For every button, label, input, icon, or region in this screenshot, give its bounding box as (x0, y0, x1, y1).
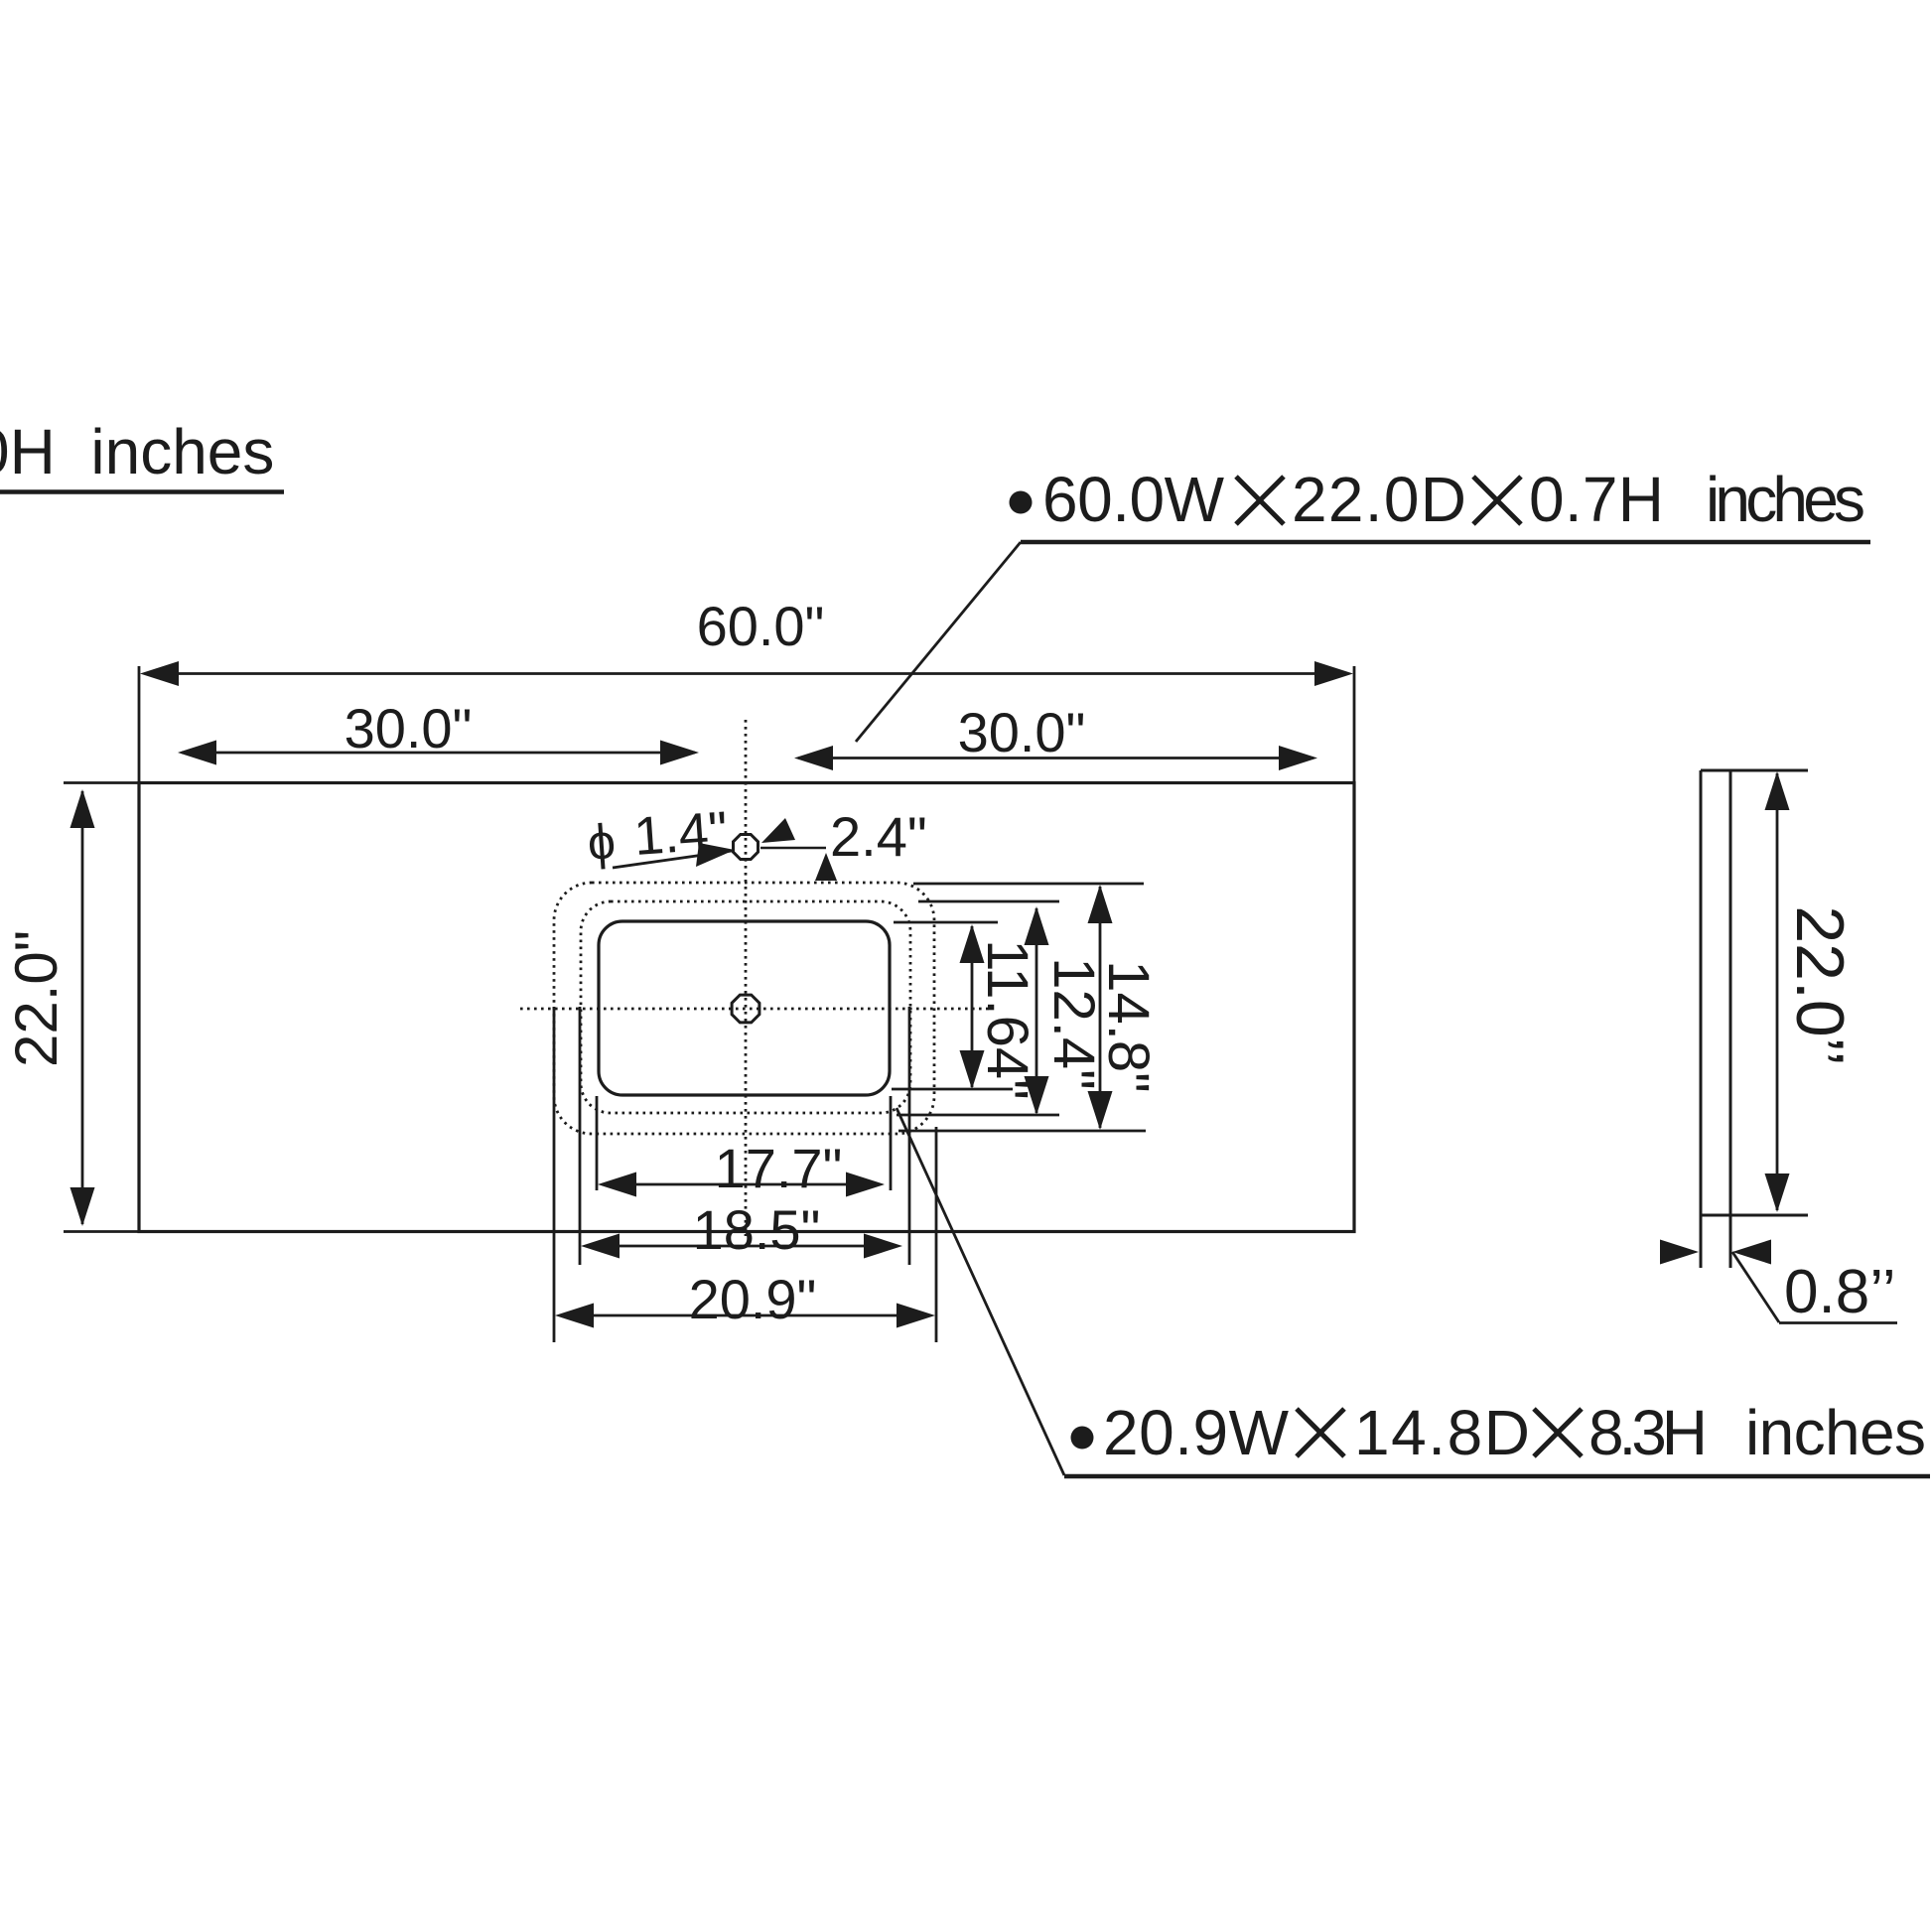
label 18.5" (693, 1198, 821, 1261)
14.8 top extension (913, 883, 1144, 886)
svg-text:22.0D: 22.0D (1292, 464, 1466, 535)
thickness arrow left (1660, 1240, 1699, 1265)
label 22.0" left (rotated) (3, 930, 69, 1067)
svg-text:inches: inches (1706, 464, 1865, 535)
phi arrowhead right of hole (761, 818, 795, 843)
label 60.0" (697, 595, 825, 657)
svg-text:20.9": 20.9" (689, 1268, 817, 1330)
17.7 right extension (890, 1096, 893, 1190)
label 14.8" (rotated) (1096, 960, 1161, 1092)
dim 18.5 line (586, 1245, 897, 1248)
dimension line 22.0 left (81, 791, 84, 1224)
multiplication cross 3 (1297, 1409, 1344, 1456)
dim 17.7 line (603, 1183, 880, 1186)
svg-text:inches: inches (1745, 1397, 1926, 1468)
phi arrowhead left of hole (696, 843, 735, 867)
drain hole octagon (732, 995, 759, 1023)
svg-text:30.0": 30.0" (958, 701, 1086, 763)
faucet hole octagon (734, 835, 759, 860)
cropped header text "0H inches" top-left (0, 416, 274, 487)
vertical dotted centerline of sink (745, 720, 748, 1236)
label 30.0" right (958, 701, 1086, 763)
18.5 right extension (908, 1007, 911, 1265)
top edge extension to left (64, 781, 139, 784)
svg-text:17.7": 17.7" (715, 1137, 843, 1199)
bullet of countertop note (1010, 491, 1033, 514)
2.4 up arrow (815, 853, 837, 881)
bottom edge extension to left (64, 1230, 139, 1233)
horizontal dotted centerline of sink (520, 1008, 993, 1011)
svg-text:2.4": 2.4" (830, 805, 927, 868)
svg-text:30.0": 30.0" (345, 697, 473, 759)
sink note leader diagonal (897, 1108, 1064, 1475)
svg-text:60.0": 60.0" (697, 595, 825, 657)
extension tick left of 60.0 (138, 666, 141, 782)
multiplication cross 2 (1473, 477, 1521, 524)
dim 14.8 vertical line (1099, 887, 1102, 1128)
middle dotted cutout rounded rect (581, 901, 910, 1113)
dim 20.9 line (560, 1314, 930, 1317)
svg-text:0.7H: 0.7H (1529, 464, 1664, 535)
20.9 right extension (935, 1127, 938, 1342)
basin solid rounded rect (599, 921, 890, 1095)
svg-text:22.0": 22.0" (3, 930, 69, 1067)
18.5 left extension (579, 1007, 582, 1265)
label 17.7" (715, 1137, 843, 1199)
14.8 bottom extension (898, 1130, 1146, 1133)
side view top edge (1701, 769, 1808, 772)
label 12.4" (rotated) (1041, 957, 1106, 1089)
header underline (0, 489, 284, 494)
label 2.4" (830, 805, 927, 868)
dimension line 60.0 (145, 672, 1348, 675)
svg-text:22.0’’: 22.0’’ (1782, 905, 1858, 1065)
countertop outline (plan view) (139, 783, 1354, 1232)
20.9 left extension (553, 1007, 556, 1342)
dimension line 22.0 side (1776, 773, 1779, 1210)
side view slab right edge (1729, 770, 1732, 1268)
label 22.0'' side (rotated) (1782, 905, 1858, 1065)
countertop note underline (1021, 540, 1870, 545)
svg-text:12.4": 12.4" (1041, 957, 1106, 1089)
side view bottom edge (1701, 1214, 1808, 1217)
11.64 bottom extension (892, 1088, 1013, 1091)
bullet of sink note (1071, 1427, 1094, 1449)
svg-text:18.5": 18.5" (693, 1198, 821, 1261)
multiplication cross 1 (1236, 477, 1284, 524)
svg-text:0.8’’: 0.8’’ (1784, 1258, 1896, 1326)
sink note text 20.9W x 14.8D x 8.3H inches (1103, 1397, 1926, 1468)
12.4 top extension (918, 900, 1059, 903)
svg-text:ϕ: ϕ (586, 813, 618, 871)
sink note underline (1064, 1474, 1930, 1479)
thickness arrow right (1732, 1240, 1771, 1265)
dim 11.64 vertical line (971, 926, 974, 1087)
outer dotted cutout rounded rect (554, 883, 934, 1134)
label 11.64" (rotated) (975, 939, 1039, 1099)
dim 12.4 vertical line (1035, 908, 1038, 1113)
dimension line 30.0 right (798, 757, 1313, 759)
0.8 underline (1779, 1321, 1897, 1324)
side view slab left edge (1700, 770, 1703, 1268)
countertop note text 60.0W x 22.0D x 0.7H inches (1042, 464, 1865, 535)
11.64 top extension (894, 921, 998, 924)
label 0.8'' (1784, 1258, 1896, 1326)
dimension line 30.0 left (182, 752, 695, 755)
svg-text:0H inches: 0H inches (0, 416, 274, 487)
phi leader line (613, 851, 732, 868)
12.4 bottom extension (897, 1114, 1059, 1117)
label 20.9" (689, 1268, 817, 1330)
label 30.0" left (345, 697, 473, 759)
label phi 1.4" (586, 801, 730, 871)
17.7 left extension (596, 1096, 599, 1190)
svg-text:20.9W: 20.9W (1103, 1397, 1290, 1468)
countertop note leader line (856, 542, 1021, 742)
svg-text:8.3H: 8.3H (1588, 1397, 1708, 1468)
0.8 leader diagonal (1732, 1252, 1779, 1322)
svg-text:60.0W: 60.0W (1042, 464, 1225, 535)
svg-text:14.8D: 14.8D (1354, 1397, 1530, 1468)
2.4 extension line (760, 847, 826, 849)
multiplication cross 4 (1534, 1409, 1582, 1456)
extension tick right of 60.0 (1353, 666, 1356, 782)
svg-text:11.64": 11.64" (975, 939, 1039, 1099)
